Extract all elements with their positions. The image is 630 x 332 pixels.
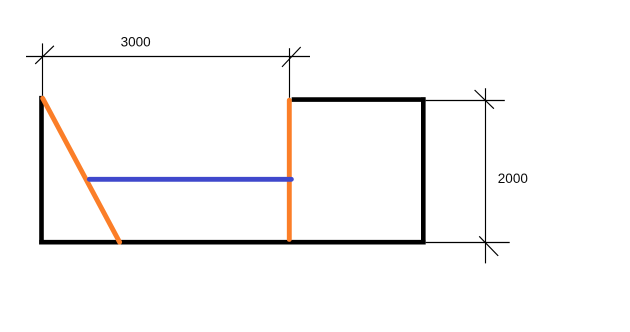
svg-text:3000: 3000 bbox=[121, 35, 151, 50]
svg-text:2000: 2000 bbox=[498, 171, 528, 186]
